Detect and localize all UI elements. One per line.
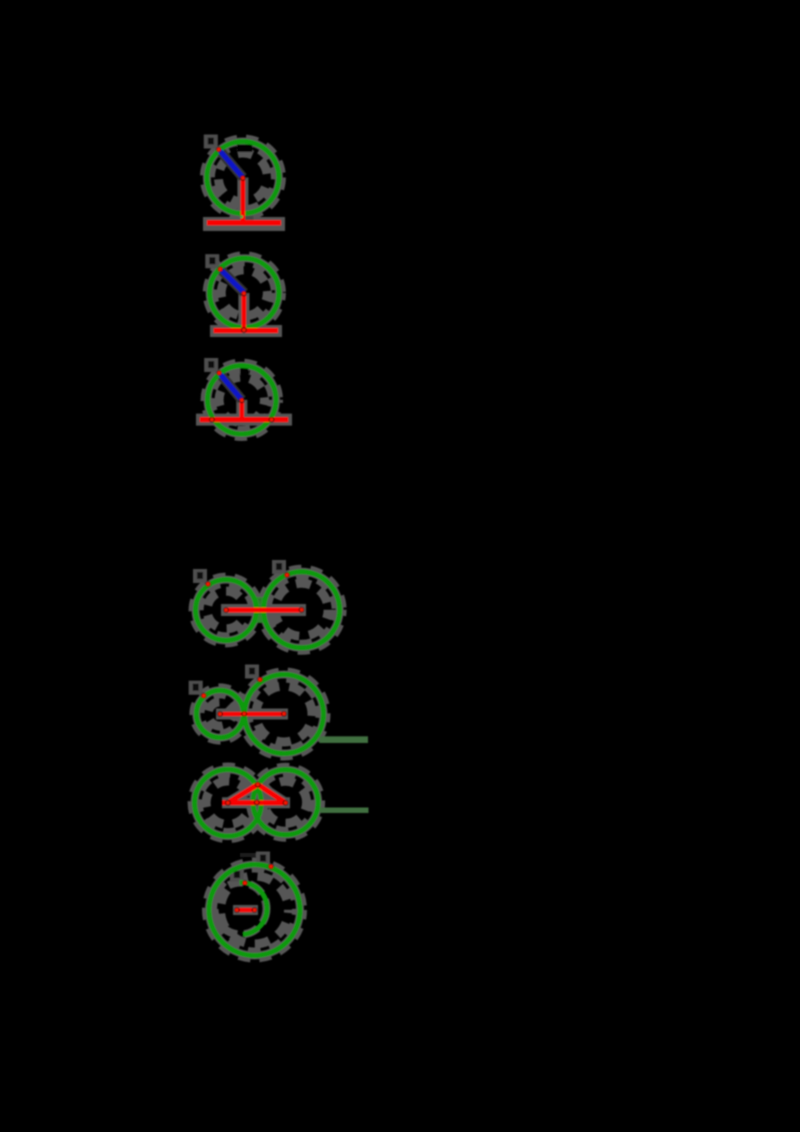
circle F3 <box>208 366 276 434</box>
intersection point F5 <box>241 711 247 717</box>
label blob large point F5 <box>245 665 259 679</box>
Figure 1: circle with exterior line, d greater than r <box>203 135 285 226</box>
casing center line F7 <box>233 905 258 915</box>
Figure 3: circle with secant line, d less than r <box>196 358 292 437</box>
right center point F4 <box>299 607 305 613</box>
faint caption bar F6 <box>240 853 258 857</box>
Figure 2: circle with tangent line, d equal r <box>205 254 282 333</box>
right-angle mark F1 <box>244 216 253 225</box>
label blob left point F4 <box>193 569 207 583</box>
casing inner circle F7 <box>215 883 267 935</box>
point on right circle F4 <box>284 572 290 578</box>
left circle F4 <box>196 580 257 641</box>
outer center point F7 <box>252 907 258 913</box>
casing blue segment F1 <box>219 150 243 178</box>
red line of centers F4 <box>224 608 302 613</box>
casing small circle F5 <box>193 687 247 741</box>
label blob near point F1 <box>204 135 218 149</box>
casing center line F5 <box>216 709 288 720</box>
casing blue segment F2 <box>220 269 244 293</box>
casing radius line F1 <box>237 178 248 225</box>
point on outer circle F7 <box>268 864 274 870</box>
casing center line F4 <box>221 604 306 616</box>
casing right circle F6 <box>250 766 322 838</box>
point on large circle F5 <box>257 677 263 683</box>
label hole top F1 <box>237 145 253 153</box>
right center point F6 <box>283 800 289 806</box>
label blob near point F2 <box>205 254 219 268</box>
casing circle F1 <box>203 138 282 217</box>
center point F3 <box>239 397 245 403</box>
point on inner circle F7 <box>242 880 248 886</box>
left center point F4 <box>223 607 229 613</box>
point on small circle F5 <box>201 693 207 699</box>
small circle F5 <box>196 690 243 737</box>
label blob inner point F7 <box>230 868 244 882</box>
Figure 5: two slightly overlapping circles, small and large <box>189 665 368 758</box>
label blob right point F4 <box>272 560 286 574</box>
red radius F2 <box>242 293 247 329</box>
casing triangle F6 <box>222 785 290 803</box>
small center point F5 <box>217 711 223 717</box>
red secant line F3 <box>200 417 288 422</box>
casing large circle F5 <box>241 671 327 757</box>
blue segment F2 <box>220 269 244 293</box>
tangency point F2 <box>241 327 247 333</box>
red triangle right side F6 <box>258 785 286 803</box>
left center point F6 <box>225 800 231 806</box>
casing exterior line F1 <box>203 217 285 231</box>
large center point F5 <box>281 711 287 717</box>
circle F1 <box>207 142 279 214</box>
Figure 4: two externally tangent circles <box>192 560 343 651</box>
Figure 7: one circle inside another <box>206 852 304 960</box>
casing left circle F6 <box>191 766 265 840</box>
casing tangent line F2 <box>210 325 282 337</box>
faint green bar right of F5 <box>320 736 369 743</box>
secant intersection left F3 <box>209 417 215 423</box>
point on circle F3 <box>216 370 222 376</box>
red line of centers F5 <box>220 712 284 716</box>
center point F2 <box>241 291 247 297</box>
blue segment center to point F1 <box>219 150 243 178</box>
apex intersection point F6 <box>255 782 261 788</box>
red exterior line F1 <box>207 220 281 225</box>
outer circle F7 <box>209 865 300 956</box>
casing right circle F4 <box>260 568 343 651</box>
blue segment F3 <box>219 373 242 400</box>
inner center point F7 <box>234 907 240 913</box>
red triangle left side F6 <box>228 785 258 803</box>
label blob outer point F7 <box>256 852 270 866</box>
label blob small point F5 <box>189 681 203 695</box>
point on left circle F4 <box>205 581 211 587</box>
mid point F6 <box>254 800 260 806</box>
Figure 6: two intersecting circles with centre triangle <box>191 766 368 857</box>
red tangent line F2 <box>214 328 278 333</box>
inner circle right arc F7 <box>240 882 267 934</box>
right circle F6 <box>253 770 318 835</box>
center point F1 <box>240 175 246 181</box>
secant intersection right F3 <box>269 417 275 423</box>
red line of centers F7 <box>237 908 255 912</box>
casing secant line F3 <box>196 414 292 426</box>
casing blue segment F3 <box>219 373 242 400</box>
casing circle F2 <box>206 255 282 331</box>
red radius F3 <box>240 400 245 419</box>
foot point F1 <box>240 215 243 218</box>
red line of centers F6 <box>222 800 286 805</box>
right circle F4 <box>264 572 340 648</box>
left circle F6 <box>195 770 262 837</box>
faint green bar right of F6 <box>320 808 369 814</box>
green merge patch between circles F4 <box>256 597 265 623</box>
casing left circle F4 <box>192 576 260 644</box>
casing circle F3 <box>204 362 279 437</box>
casing radius line F2 <box>238 293 249 331</box>
red perpendicular radius F1 <box>241 178 246 221</box>
large circle F5 <box>245 675 324 754</box>
label hole top F3 <box>240 368 249 375</box>
point on circle F2 <box>217 266 223 272</box>
label blob near point F3 <box>204 358 218 372</box>
circle F2 <box>210 258 279 327</box>
point on circle F1 <box>216 147 222 153</box>
casing outer circle F7 <box>206 861 304 959</box>
casing radius line F3 <box>236 400 247 420</box>
